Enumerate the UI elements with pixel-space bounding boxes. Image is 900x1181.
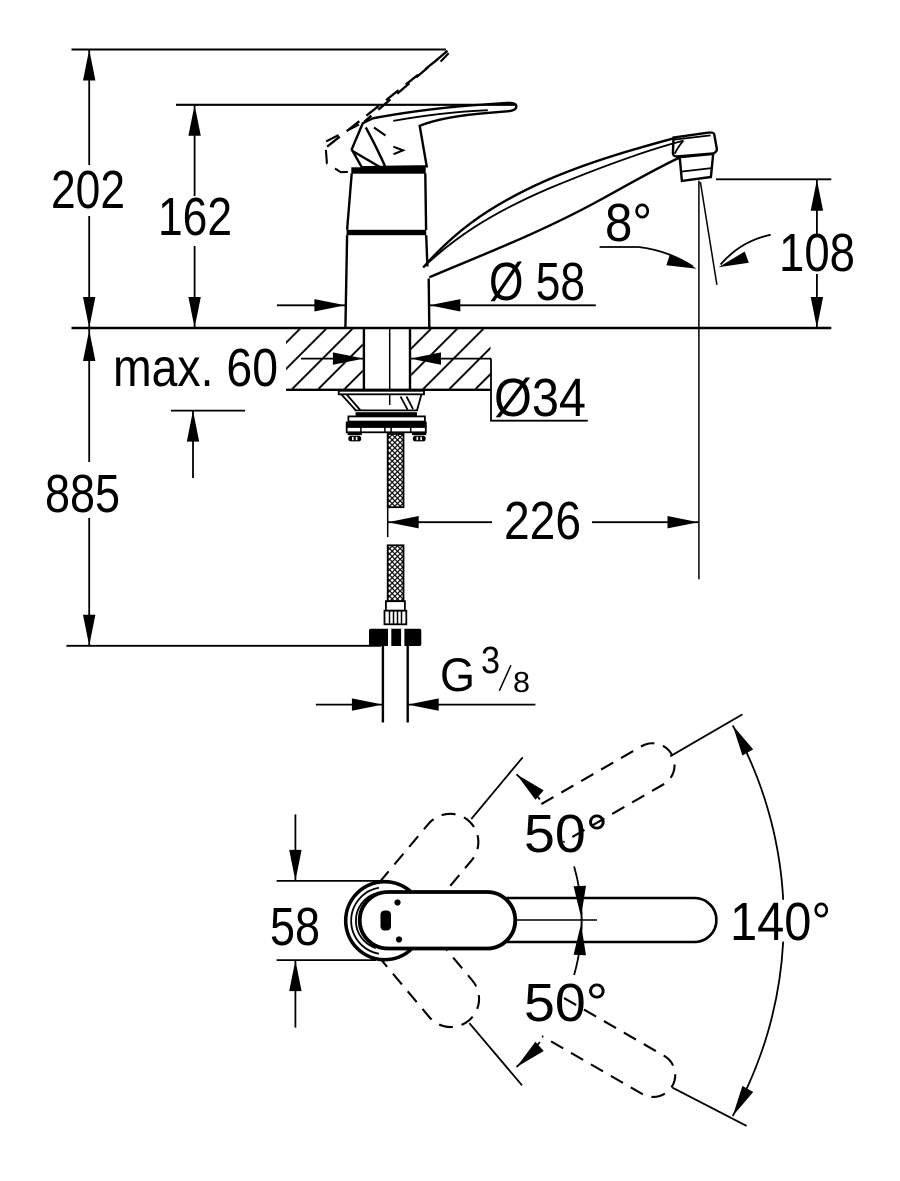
dimension 885 vertical line [88,328,90,646]
svg-text:8: 8 [513,667,530,699]
left mounting bolt [348,432,362,435]
faucet body and lever outline [352,103,517,167]
body lower section edges [345,235,347,328]
svg-text:Ø34: Ø34 [494,368,586,428]
shank inner line [389,329,391,405]
svg-text:202: 202 [51,160,125,220]
max. 60 reference line [171,410,245,412]
108 top reference line [716,178,831,180]
plan: dashed spout at -30deg [542,998,683,1105]
flange trapezoid right side [417,394,422,410]
aerator mid line [681,168,711,172]
diameter 34 leader [491,359,588,421]
spout head inner top line [674,135,710,139]
G3/8 threaded tube [382,646,384,723]
svg-text:max. 60: max. 60 [113,338,278,398]
dashed handle inner mark [374,128,386,136]
svg-text:885: 885 [45,464,120,524]
plan: 58 reference lines [277,880,384,882]
plan: dashed handle at -50deg [347,883,490,1038]
plan: lower 50deg arc [517,1042,540,1067]
plan: extension line upper-right [670,714,742,756]
washer plate [348,416,425,421]
hose connection nut [369,629,421,646]
dashed lever (raised position) line A [365,51,448,122]
plan: escutcheon outer circle [346,882,424,960]
plan: handle dots [394,899,400,905]
8 deg right arc [721,235,771,265]
water stream vertical line [698,181,700,580]
plan: spout center line [517,919,597,921]
dimension line diameter 58 [277,304,345,306]
dimension 202 vertical line [88,50,90,329]
dashed handle base outline (raised) [325,125,359,173]
svg-text:162: 162 [158,187,232,247]
dashed handle base mark [393,147,403,155]
flange trapezoid left side [341,394,356,410]
dashed lever (raised position) line B [325,59,438,148]
body upper section edges [347,174,352,230]
plan: extension line upper-left [471,757,522,819]
top reference line (202) [72,48,447,50]
flange diagonal ticks [401,397,408,410]
handle-top reference line (162) [176,104,515,106]
mounting flange top plate [339,391,424,395]
svg-text:8°: 8° [605,193,652,253]
svg-text:Ø 58: Ø 58 [489,252,585,312]
body ring (black band 2) [347,230,427,235]
rubber washer (black) [346,422,427,427]
right mounting bolt [412,432,426,435]
plan: extension line lower-left [469,1023,522,1085]
spout top outer curve [423,138,676,268]
flexible hose upper braided segment [388,434,404,507]
svg-text:140°: 140° [730,892,831,952]
8 deg left arc [639,247,693,267]
dashed lever tip cap [441,53,449,61]
plan: spout capsule [366,898,716,942]
aerator [680,154,714,181]
dimension 162 vertical line [194,105,196,328]
plan: extension line lower-right [673,1088,747,1126]
countertop line [72,327,832,329]
lever inner bottom line [393,110,488,121]
plan: upper 50deg arc [517,774,540,799]
spout underside curve [429,158,679,278]
svg-text:50°: 50° [524,973,608,1033]
svg-text:58: 58 [270,897,320,957]
spout head inner curve [675,140,684,153]
svg-text:108: 108 [779,223,855,283]
flexible hose lower braided segment [388,545,404,601]
dimension G 3/8 [316,704,383,706]
cartridge ring (black band 1) [351,167,425,173]
cartridge dome curve [366,127,385,166]
8 degree tilted stream line [700,182,717,285]
svg-text:3: 3 [481,640,500,682]
dimension 226 line [388,521,699,523]
plan: dimension 58 [294,814,296,881]
plan: 140deg arc [733,725,784,899]
spout head [673,133,717,157]
8 deg leader line [600,246,639,248]
plan: handle capsule [360,892,516,949]
plan: handle logo blob [381,911,392,931]
plan: dashed spout at +30deg [541,735,682,842]
dimension 108 vertical line [816,180,818,328]
spout top inner curve [423,141,683,268]
counter bottom line [286,389,491,391]
885 bottom reference line [66,645,381,647]
max. 60 arrow [192,411,194,478]
svg-text:226: 226 [504,491,581,551]
plan: escutcheon inner arc 1 [351,888,379,954]
shank right edge [409,329,411,390]
mounting plate [347,427,426,432]
shank left edge [363,329,365,390]
hose break edge [387,507,389,537]
dimension line diameter 34 [301,358,364,360]
cartridge dome facet line [352,151,383,169]
plan: dashed handle at +50deg [347,802,490,957]
flange base line [355,409,418,411]
svg-text:50°: 50° [524,804,608,864]
plan: escutcheon inner arc 2 [356,893,376,948]
counter hatching left [286,329,363,388]
counter hatching right [411,329,490,388]
seal ring (black) [356,412,417,416]
hose ribbed collar [385,611,407,625]
svg-text:G: G [440,648,475,701]
hose ferrule [386,601,405,611]
